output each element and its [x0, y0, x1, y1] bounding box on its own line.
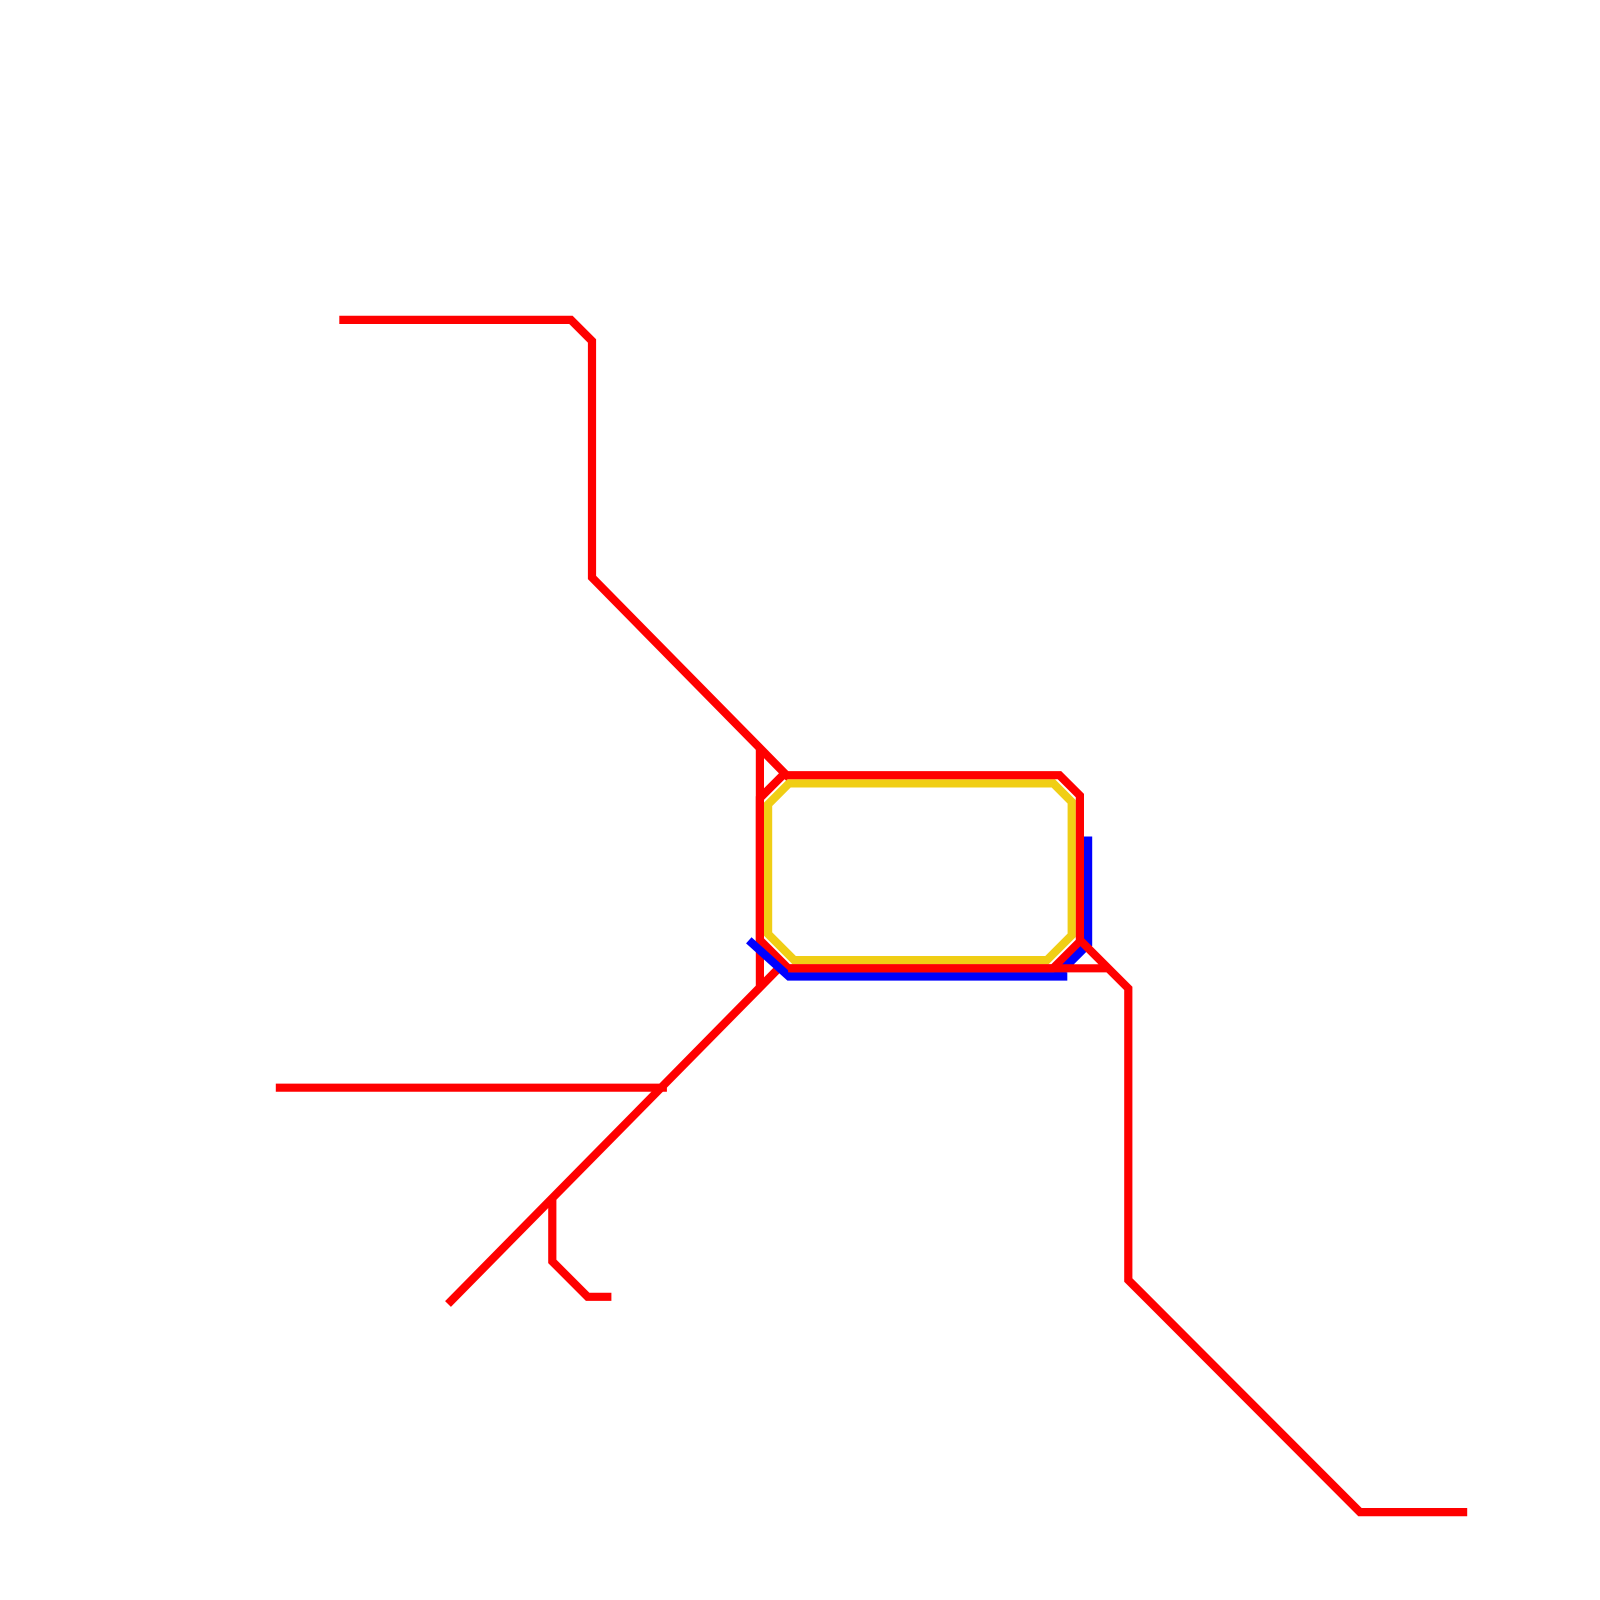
- red loop line (octagon ring): [760, 775, 1080, 968]
- red northwest branch line: [339, 320, 789, 778]
- red west horizontal line: [276, 1084, 667, 1092]
- blue line bottom edge + end diagonal (bottom of loop): [749, 940, 1068, 976]
- blue line vertical + corner cut (right side of loop): [1056, 837, 1088, 977]
- red southeast branch line: [1080, 940, 1467, 1512]
- red loop bottom edge full (over blue, wye connector to southeast branch): [788, 964, 1108, 972]
- red loop left edge extension (wye connector): [756, 748, 764, 987]
- red short spur off southwest diagonal: [552, 1198, 611, 1297]
- red southwest diagonal branch line: [448, 968, 779, 1304]
- yellow loop line (octagon ring): [768, 783, 1072, 960]
